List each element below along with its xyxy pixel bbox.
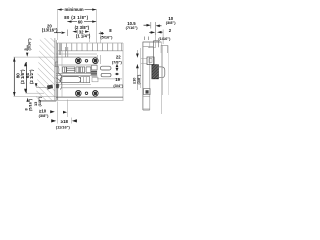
lower claw	[144, 89, 151, 95]
device lower faint line	[40, 99, 124, 101]
svg-text:(1/2"): (1/2")	[37, 96, 42, 107]
screw top-right	[92, 58, 98, 64]
wall right edge double line	[54, 38, 56, 101]
svg-text:(1/16"): (1/16")	[158, 36, 171, 41]
svg-text:(7/8"): (7/8")	[112, 59, 123, 64]
small parts right of slider	[92, 65, 98, 70]
small hole top	[85, 60, 88, 63]
device right edge	[122, 43, 124, 100]
strip end double line	[121, 43, 123, 51]
lip connect lines	[141, 58, 147, 60]
svg-text:≥18: ≥18	[61, 119, 69, 124]
slotted hole 2	[101, 73, 111, 77]
device outline top	[56, 42, 123, 44]
svg-text:(2 1/2"): (2 1/2")	[29, 69, 34, 84]
release slider rod	[60, 77, 80, 83]
top ref line y57	[14, 56, 57, 58]
small hole bottom	[85, 92, 88, 95]
ext lines	[57, 102, 59, 124]
svg-text:(13/16"): (13/16")	[42, 27, 58, 32]
wall bottom edge	[39, 100, 57, 102]
rail pocket	[157, 67, 165, 78]
slider detent	[81, 77, 90, 83]
bottom ref y93	[25, 92, 44, 94]
screw bottom-right	[92, 90, 98, 96]
band lower edge	[56, 84, 91, 86]
dim >=18	[51, 119, 56, 122]
dim 13 bottom left	[35, 83, 38, 87]
row2 arrows	[151, 31, 156, 34]
lower line	[62, 87, 122, 89]
svg-text:(11/16"): (11/16")	[56, 124, 71, 129]
svg-text:(3/8"): (3/8")	[166, 20, 177, 25]
wall lines right	[160, 42, 162, 114]
wall section hatching (left view)	[36, 38, 55, 101]
svg-text:(1 1/4"): (1 1/4")	[76, 34, 91, 39]
strip ticks	[62, 43, 118, 51]
device bottom line	[56, 96, 123, 98]
dim minimum 80: extension lines	[57, 9, 59, 40]
bottom ref y96.4	[14, 95, 57, 97]
right view extension line	[140, 48, 142, 88]
leader into wall + anchor blob	[36, 86, 47, 88]
dim 64 vertical	[26, 62, 28, 93]
rail top lip hollow	[147, 57, 154, 65]
small bars bottom	[144, 37, 146, 41]
DIN rail section (dark hatched)	[152, 65, 159, 79]
right view body	[142, 42, 144, 110]
svg-text:80 (3 1/8"): 80 (3 1/8")	[64, 15, 88, 20]
slotted hole 1	[100, 66, 111, 70]
svg-text:(5/16"): (5/16")	[100, 34, 113, 39]
device back edge	[57, 43, 59, 100]
dim 32	[76, 29, 78, 34]
mid lines	[56, 72, 97, 74]
svg-text:60: 60	[78, 19, 83, 24]
dim 60	[67, 21, 96, 23]
screw top-left	[75, 58, 81, 64]
top ticked strip bottom line	[58, 50, 123, 52]
dim minimum 80: line and arrows	[58, 9, 97, 11]
inner vertical edge	[61, 51, 63, 97]
dim line vertical	[136, 50, 138, 58]
svg-text:(7/16"): (7/16")	[126, 25, 139, 30]
svg-text:(3/8"): (3/8")	[136, 74, 141, 85]
terminal box row	[63, 67, 91, 73]
screw row top line	[56, 56, 97, 58]
back clip shapes	[55, 62, 58, 67]
svg-text:(5/16"): (5/16")	[28, 98, 33, 111]
back slot verticals	[59, 43, 61, 55]
dim 8 bottom left	[26, 98, 29, 102]
screw row bottom line	[56, 64, 97, 66]
svg-text:(3/4"): (3/4")	[113, 83, 124, 88]
body line y54	[56, 53, 97, 55]
screw bottom-left	[75, 90, 81, 96]
dim 80 vertical	[13, 57, 15, 96]
bracket top right	[161, 45, 168, 53]
svg-text:minimum: minimum	[65, 7, 84, 12]
slot at x66	[65, 47, 67, 57]
svg-text:19: 19	[115, 77, 120, 82]
svg-text:(3/8"): (3/8")	[39, 113, 50, 118]
